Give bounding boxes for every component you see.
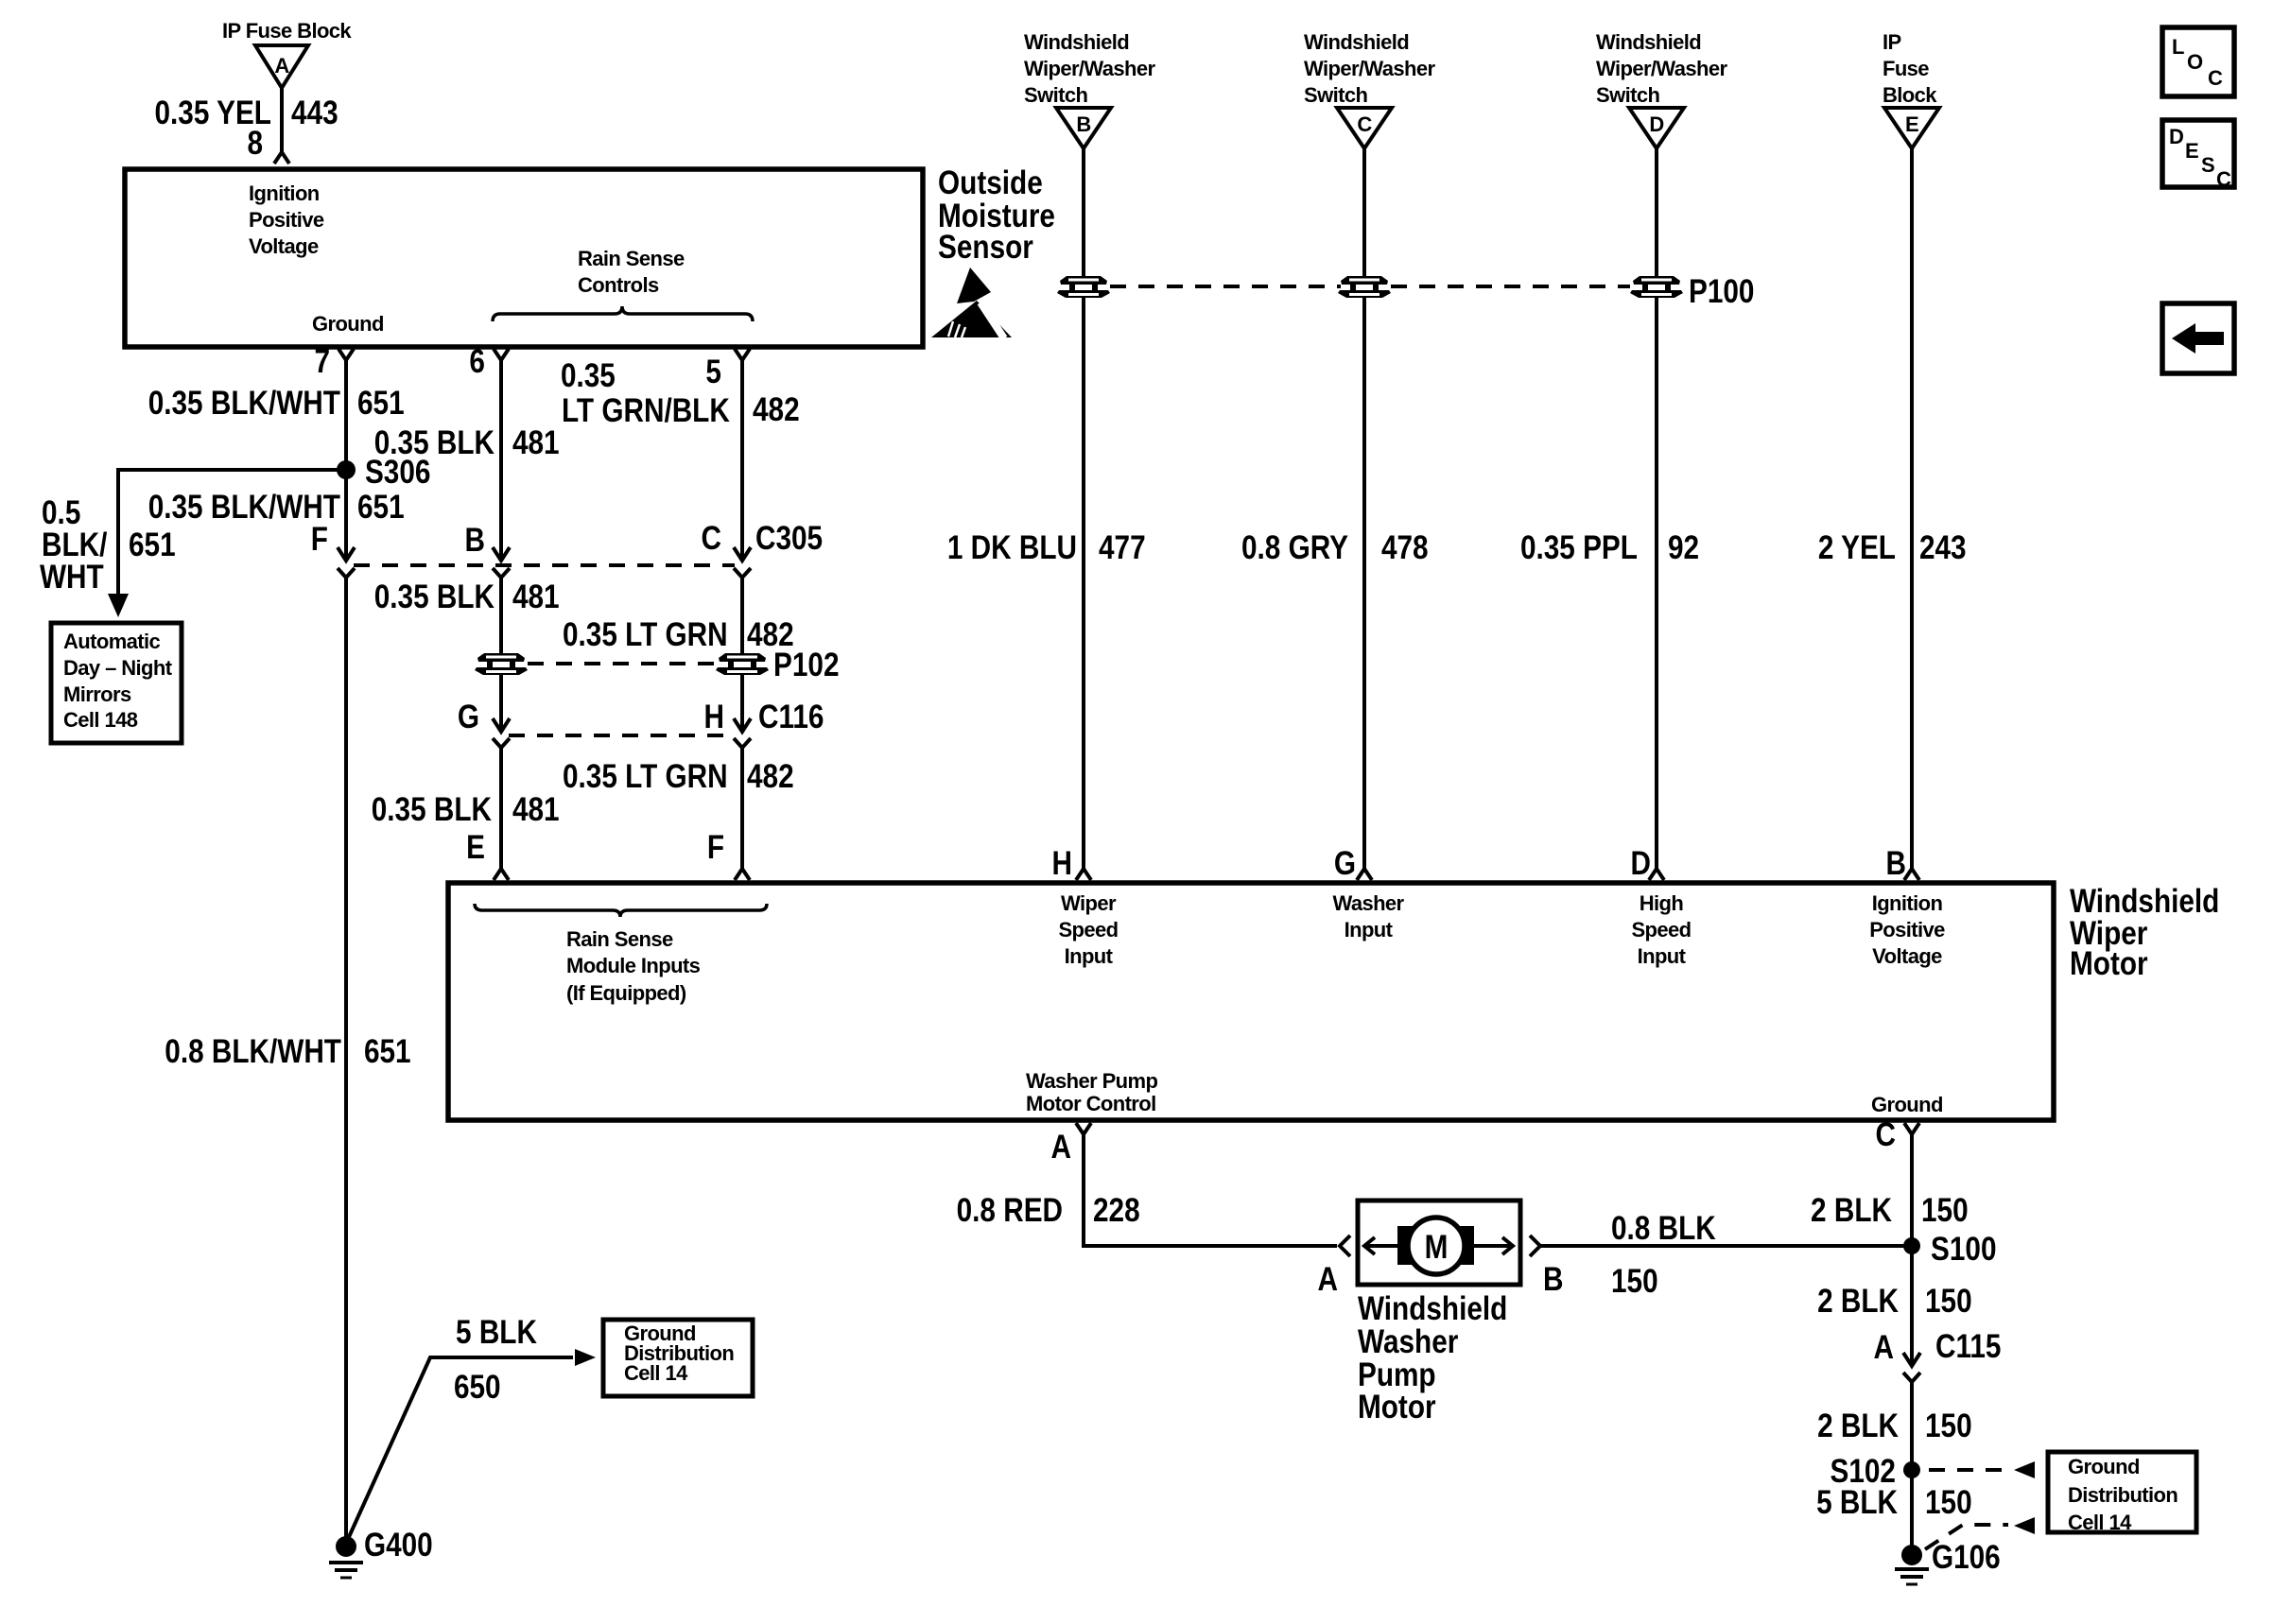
svg-text:D: D	[1649, 112, 1663, 136]
svg-text:S306: S306	[365, 454, 430, 491]
svg-text:Ground: Ground	[2068, 1455, 2140, 1478]
svg-text:651: 651	[364, 1033, 411, 1070]
svg-text:Wiper/Washer: Wiper/Washer	[1596, 57, 1728, 80]
svg-text:B: B	[1886, 845, 1906, 882]
svg-text:0.35: 0.35	[561, 357, 616, 394]
svg-text:Windshield: Windshield	[1304, 30, 1409, 54]
svg-text:2 BLK: 2 BLK	[1817, 1283, 1899, 1320]
svg-text:Ground: Ground	[312, 312, 384, 336]
svg-text:Switch: Switch	[1024, 83, 1087, 107]
svg-text:Block: Block	[1883, 83, 1937, 107]
svg-text:150: 150	[1921, 1192, 1969, 1229]
svg-text:Positive: Positive	[249, 208, 324, 232]
svg-text:443: 443	[291, 95, 338, 131]
svg-text:B: B	[1543, 1261, 1563, 1298]
svg-text:IP: IP	[1883, 30, 1901, 54]
svg-text:481: 481	[512, 424, 560, 461]
svg-text:P102: P102	[773, 647, 839, 683]
svg-text:A: A	[274, 54, 289, 78]
svg-text:Switch: Switch	[1304, 83, 1367, 107]
svg-text:Input: Input	[1638, 944, 1687, 968]
svg-text:S100: S100	[1931, 1231, 1996, 1268]
svg-text:Distribution: Distribution	[2068, 1483, 2178, 1507]
svg-text:Windshield: Windshield	[1596, 30, 1701, 54]
svg-text:F: F	[707, 829, 724, 866]
svg-text:150: 150	[1925, 1283, 1972, 1320]
svg-text:Speed: Speed	[1631, 918, 1691, 942]
svg-text:Ignition: Ignition	[249, 181, 320, 205]
svg-text:H: H	[704, 699, 724, 735]
svg-text:Voltage: Voltage	[249, 234, 319, 258]
svg-text:BLK/: BLK/	[42, 527, 107, 563]
svg-text:482: 482	[753, 391, 800, 428]
svg-text:0.8 GRY: 0.8 GRY	[1241, 529, 1348, 566]
svg-text:0.8 BLK: 0.8 BLK	[1611, 1210, 1716, 1247]
svg-text:A: A	[1874, 1329, 1894, 1366]
svg-text:5 BLK: 5 BLK	[1816, 1484, 1898, 1521]
svg-text:Windshield: Windshield	[2070, 883, 2219, 920]
svg-text:Positive: Positive	[1869, 918, 1945, 942]
svg-text:E: E	[466, 829, 485, 866]
svg-text:High: High	[1640, 891, 1684, 915]
svg-text:Cell 148: Cell 148	[63, 708, 138, 732]
svg-text:150: 150	[1925, 1408, 1972, 1444]
svg-text:0.35 BLK: 0.35 BLK	[374, 579, 495, 615]
svg-text:F: F	[311, 521, 328, 558]
svg-text:6: 6	[469, 343, 485, 380]
svg-text:C: C	[2208, 66, 2223, 90]
svg-text:5 BLK: 5 BLK	[456, 1314, 537, 1351]
svg-text:Washer: Washer	[1332, 891, 1404, 915]
svg-text:Day – Night: Day – Night	[63, 656, 173, 680]
svg-text:Ignition: Ignition	[1872, 891, 1943, 915]
svg-text:B: B	[1076, 112, 1090, 136]
svg-text:G: G	[458, 699, 479, 735]
svg-text:D: D	[2169, 125, 2183, 148]
svg-text:5: 5	[705, 354, 721, 390]
svg-text:8: 8	[247, 125, 263, 162]
svg-text:Rain Sense: Rain Sense	[566, 927, 673, 951]
svg-text:2 YEL: 2 YEL	[1818, 529, 1896, 566]
svg-text:2 BLK: 2 BLK	[1811, 1192, 1892, 1229]
svg-text:0.35 BLK/WHT: 0.35 BLK/WHT	[148, 385, 340, 422]
svg-text:A: A	[1050, 1129, 1070, 1166]
svg-text:C: C	[1875, 1116, 1895, 1153]
svg-text:C: C	[2216, 167, 2231, 191]
svg-text:477: 477	[1099, 529, 1146, 566]
svg-text:150: 150	[1925, 1484, 1972, 1521]
svg-text:IP Fuse Block: IP Fuse Block	[222, 19, 352, 43]
svg-text:WHT: WHT	[40, 559, 104, 596]
svg-text:0.35 LT GRN: 0.35 LT GRN	[563, 616, 728, 653]
svg-text:Input: Input	[1065, 944, 1114, 968]
svg-text:481: 481	[512, 579, 560, 615]
svg-text:Voltage: Voltage	[1872, 944, 1942, 968]
svg-text:Windshield: Windshield	[1024, 30, 1129, 54]
svg-text:(If Equipped): (If Equipped)	[566, 981, 686, 1005]
svg-text:Windshield: Windshield	[1358, 1290, 1507, 1327]
svg-text:C: C	[701, 520, 720, 557]
svg-text:C: C	[1357, 112, 1372, 136]
svg-text:Module Inputs: Module Inputs	[566, 954, 701, 977]
svg-text:0.8 BLK/WHT: 0.8 BLK/WHT	[165, 1033, 341, 1070]
svg-text:481: 481	[512, 791, 560, 828]
svg-text:Rain Sense: Rain Sense	[578, 247, 685, 270]
svg-text:G400: G400	[364, 1527, 433, 1564]
svg-text:Wiper/Washer: Wiper/Washer	[1304, 57, 1436, 80]
svg-text:Wiper: Wiper	[1061, 891, 1117, 915]
svg-text:Washer: Washer	[1358, 1323, 1459, 1360]
svg-text:243: 243	[1919, 529, 1967, 566]
svg-text:92: 92	[1668, 529, 1699, 566]
svg-text:Outside: Outside	[938, 164, 1043, 201]
svg-text:0.8 RED: 0.8 RED	[957, 1192, 1063, 1229]
svg-text:Cell 14: Cell 14	[2068, 1511, 2132, 1534]
svg-text:Mirrors: Mirrors	[63, 682, 131, 706]
svg-text:O: O	[2187, 50, 2203, 74]
svg-text:M: M	[1425, 1229, 1449, 1266]
svg-text:E: E	[2185, 139, 2198, 163]
svg-text:LT GRN/BLK: LT GRN/BLK	[562, 392, 730, 429]
svg-text:Fuse: Fuse	[1883, 57, 1929, 80]
svg-text:0.35 BLK: 0.35 BLK	[372, 791, 493, 828]
svg-text:482: 482	[747, 758, 794, 795]
svg-text:478: 478	[1381, 529, 1429, 566]
svg-text:C116: C116	[758, 699, 824, 735]
svg-text:1 DK BLU: 1 DK BLU	[947, 529, 1077, 566]
svg-text:Motor: Motor	[2070, 945, 2148, 982]
svg-text:650: 650	[454, 1369, 501, 1406]
svg-text:G106: G106	[1932, 1539, 2001, 1576]
svg-text:0.35 PPL: 0.35 PPL	[1520, 529, 1638, 566]
svg-text:651: 651	[357, 385, 405, 422]
svg-text:Controls: Controls	[578, 273, 659, 297]
svg-text:Motor Control: Motor Control	[1026, 1092, 1156, 1115]
svg-text:0.35 BLK/WHT: 0.35 BLK/WHT	[148, 489, 340, 526]
svg-text:D: D	[1631, 845, 1651, 882]
svg-text:C115: C115	[1935, 1328, 2001, 1365]
svg-text:2 BLK: 2 BLK	[1817, 1408, 1899, 1444]
svg-text:Automatic: Automatic	[63, 630, 161, 653]
svg-text:Motor: Motor	[1358, 1389, 1436, 1425]
svg-text:Speed: Speed	[1058, 918, 1118, 942]
svg-text:Cell 14: Cell 14	[624, 1361, 688, 1385]
svg-text:228: 228	[1093, 1192, 1140, 1229]
svg-text:Sensor: Sensor	[938, 229, 1033, 266]
svg-text:Ground: Ground	[1871, 1093, 1943, 1116]
svg-text:Wiper/Washer: Wiper/Washer	[1024, 57, 1156, 80]
svg-text:S: S	[2201, 153, 2214, 177]
svg-text:G: G	[1334, 845, 1356, 882]
svg-text:150: 150	[1611, 1263, 1658, 1300]
svg-text:P100: P100	[1689, 273, 1754, 310]
svg-text:651: 651	[129, 527, 176, 563]
svg-text:C305: C305	[755, 520, 823, 557]
svg-text:E: E	[1905, 112, 1918, 136]
svg-text:7: 7	[314, 343, 330, 380]
svg-text:Switch: Switch	[1596, 83, 1659, 107]
svg-text:0.5: 0.5	[42, 494, 80, 531]
svg-text:651: 651	[357, 489, 405, 526]
svg-text:0.35 LT GRN: 0.35 LT GRN	[563, 758, 728, 795]
svg-text:B: B	[464, 522, 484, 559]
svg-text:Washer Pump: Washer Pump	[1026, 1069, 1157, 1093]
svg-text:A: A	[1318, 1261, 1338, 1298]
svg-text:H: H	[1052, 845, 1072, 882]
svg-text:Pump: Pump	[1358, 1356, 1436, 1393]
svg-text:Input: Input	[1345, 918, 1394, 942]
svg-text:L: L	[2172, 35, 2184, 59]
